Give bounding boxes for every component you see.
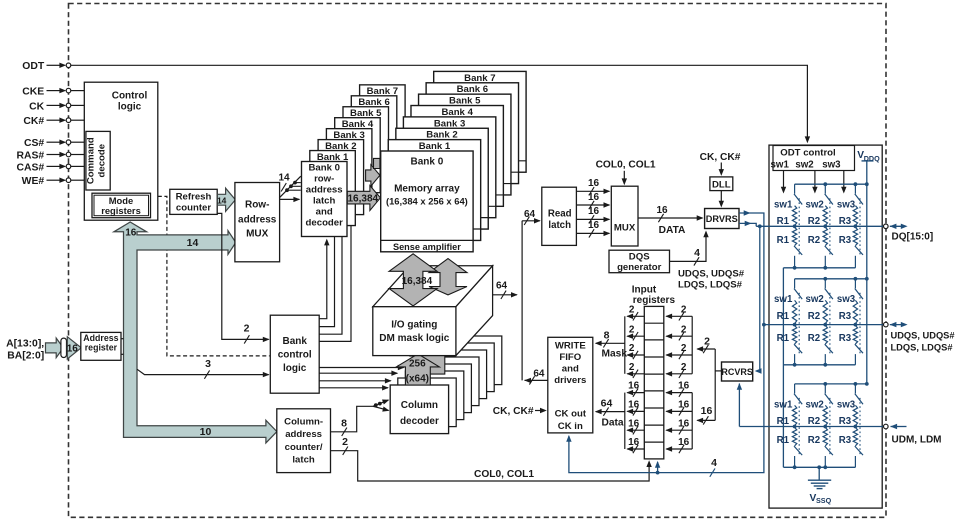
labels R1 R2 R3 upper DM [777,416,852,427]
svg-text:2: 2 [704,335,710,347]
label UDQS LDQS outputs [678,268,745,290]
wire CKE into control logic [71,90,85,92]
dashed gang link sw2 DQS [829,293,831,354]
svg-text:16: 16 [628,400,640,411]
svg-text:2: 2 [681,362,687,373]
dot branch 1 on DQS pad line [793,323,797,327]
svg-text:sw2: sw2 [805,294,823,305]
svg-text:64: 64 [533,369,545,380]
resistor R2 lower DM [823,428,827,446]
svg-text:Bank: Bank [282,336,307,347]
svg-text:16: 16 [588,178,600,189]
VDDQ bus [866,161,868,384]
svg-text:sw1: sw1 [774,399,793,410]
svg-text:64: 64 [601,398,613,410]
svg-text:counter/: counter/ [285,442,323,453]
svg-text:latch: latch [548,220,571,231]
svg-text:sw2: sw2 [805,200,823,211]
wire ODT control sw3 [843,171,845,191]
wire UDQS pad line [764,324,884,326]
svg-text:2: 2 [629,362,635,373]
svg-text:R3: R3 [839,235,852,246]
label COL0 COL1 into MUX [596,159,656,185]
ground bus [782,268,784,468]
svg-text:256: 256 [409,358,426,369]
box Bank 4 row-address latch [335,118,381,193]
wire bank control to bank0 latch [319,242,327,319]
labels R1 R2 R3 lower DQ [777,235,852,246]
svg-text:16: 16 [628,437,640,448]
dot branch 1 on DQ pad line [793,224,797,228]
svg-text:latch: latch [292,455,315,466]
svg-text:R1: R1 [777,333,790,344]
svg-text:counter: counter [176,202,211,213]
boundary collar for address bus [61,338,67,357]
resistor R2 upper DQS [823,300,827,323]
svg-text:DQS: DQS [629,252,650,263]
wire 2 register row 1 left [626,304,644,320]
resistor R3 lower DQS [853,326,857,344]
svg-text:and: and [562,363,579,374]
wire CK into control logic [71,104,85,106]
switch sw1 upper DQ [794,184,802,204]
box Address register [81,332,121,360]
box Bank control logic [270,315,319,393]
labels R1 R2 R3 upper DQS [777,311,852,322]
DQS ODT group bottom rail [783,364,855,366]
box RCVRS [721,362,753,381]
teal address bus with 16 up-arrow, 14 branch and 10 branch [114,222,277,443]
wire bank control to bank latches 3 [319,237,342,335]
dashed gang link sw2 DM [829,398,831,456]
resistor R3 lower DQ [853,227,857,245]
svg-text:sw1: sw1 [774,294,793,305]
box bank 7 column decoder sheet [443,336,501,385]
box Bank 0 row-address latch and decoder [302,162,348,237]
box I/O gating DM mask logic [373,266,493,356]
box Bank 7 memory array [434,71,526,172]
box bank 6 column decoder sheet [436,343,494,392]
svg-text:Bank 0: Bank 0 [308,163,339,174]
svg-text:14: 14 [278,172,290,183]
svg-text:CK, CK#: CK, CK# [493,406,534,417]
box Command decode [86,131,111,190]
dashed control line to refresh counter and bank control [158,196,270,356]
switch sw1 lower DM [794,446,802,467]
teal arrow 16 into address register [67,337,81,359]
wire 16 register row 7 right [665,418,692,434]
box Bank 6 memory array [426,83,518,184]
resistor R3 upper DQ [853,206,857,226]
svg-text:logic: logic [118,102,142,113]
label VSSQ [810,493,832,505]
svg-text:sw3: sw3 [837,200,856,211]
wire 16 register row 7 left [626,418,644,434]
wire 16 register row 5 left [626,381,644,397]
svg-text:16: 16 [67,344,79,355]
wire ODT to ODT control [71,65,808,139]
box Control logic U1 [84,82,158,220]
wire 8 column address to column decoder [331,399,390,436]
box WRITE FIFO and drivers [548,337,593,433]
switch sw2 upper DQS [825,279,833,299]
svg-text:logic: logic [283,363,307,374]
svg-text:CK in: CK in [558,421,583,432]
dot branch 3 on DM pad line [854,425,858,429]
gray arrow fragment bank2 row bus [366,165,380,186]
svg-text:8: 8 [604,329,610,341]
wire 16 register row 8 left [626,437,644,453]
svg-text:register: register [85,343,118,353]
box Bank 1 row-address latch [310,151,356,226]
svg-text:R1: R1 [777,311,790,322]
input pin CS# [24,138,71,149]
pad UDM LDM [884,424,942,446]
svg-text:and: and [316,207,333,218]
gray double arrow rear [429,259,467,295]
resistor R2 upper DQ [823,206,827,226]
input pin CKE [22,87,71,98]
switch sw3 upper DM [855,384,863,404]
svg-text:sw1: sw1 [774,200,793,211]
wire 16 read latch to mux 3 [576,206,610,223]
svg-text:2: 2 [342,436,348,448]
gray double arrow 16,384 sense amp to I/O gating [389,254,437,306]
left comb data collect [624,393,626,449]
svg-text:address: address [238,215,277,226]
svg-text:DATA: DATA [659,225,686,236]
svg-text:R3: R3 [839,435,852,446]
wire 8 Mask to write FIFO [595,329,628,359]
gray arrow 16,384 row bus to memory array [347,186,380,211]
switch sw3 upper DQ [855,184,863,204]
svg-text:WE#: WE# [22,176,45,187]
VDDQ power bar [862,160,874,162]
wire DQ tap to RCVRS [757,226,760,371]
switch sw2 lower DQS [825,344,833,365]
svg-text:DQ[15:0]: DQ[15:0] [892,232,934,243]
dot branch 1 on DM pad line [793,425,797,429]
switch sw3 lower DQS [855,344,863,365]
svg-text:16: 16 [678,400,690,411]
resistor R3 upper DM [853,405,857,425]
svg-text:DRVRS: DRVRS [706,214,738,224]
svg-text:MUX: MUX [246,229,269,240]
box bank 1 column decoder sheet [398,378,456,427]
svg-text:registers: registers [633,295,676,306]
switch sw1 lower DQ [794,246,802,268]
svg-text:16: 16 [588,206,600,217]
svg-text:UDQS, UDQS#: UDQS, UDQS# [678,268,745,279]
labels R1 R2 R3 upper DQ [777,216,852,227]
svg-text:R3: R3 [839,416,852,427]
wire 3 from address bus to bank control [137,369,269,374]
right comb strobe distribute [691,316,693,374]
svg-text:14: 14 [187,237,199,249]
svg-text:Command: Command [86,137,97,184]
svg-text:2: 2 [629,324,635,335]
svg-text:16,384: 16,384 [402,276,433,287]
svg-text:DM mask logic: DM mask logic [379,333,449,344]
wire DRVRS output to DQ line [739,223,756,226]
svg-text:Data: Data [602,417,624,428]
box Bank 7 row-address latch [360,85,406,160]
svg-text:R3: R3 [839,216,852,227]
svg-text:A[13:0],: A[13:0], [6,338,44,349]
wire strobe to input registers [657,462,659,472]
dashed gang link sw2 DQ [829,198,831,255]
svg-text:decode: decode [97,144,108,178]
box DRVRS [705,209,739,229]
svg-text:sw1: sw1 [771,160,790,171]
resistor R2 upper DM [823,405,827,425]
wire 2 register row 2 left [626,324,644,340]
input pin ODT [22,61,71,72]
svg-text:sw3: sw3 [837,399,856,410]
switch sw2 upper DQ [825,184,833,204]
wire bank control to column decoders 1 [319,367,403,369]
svg-text:RAS#: RAS# [16,150,44,161]
wire UDM pad line [739,426,884,428]
wire 2 register row 2 right [665,324,692,340]
DM ODT group top rail [795,383,867,385]
dashed gang link sw3 DQ [859,198,861,255]
svg-text:R1: R1 [777,235,790,246]
wire 2 register row 1 right [665,304,692,320]
svg-text:4: 4 [711,457,717,469]
gray arrow 256 (x64) column decoder to I/O gating [396,354,439,385]
input pin CK [29,101,71,112]
svg-text:3: 3 [205,358,211,370]
svg-text:(16,384 x 256 x 64): (16,384 x 256 x 64) [386,196,468,207]
box Row-address MUX [235,183,280,262]
box bank 4 column decoder sheet [421,357,479,406]
input pin A[13:0] BA[2:0] [6,338,44,361]
DQ ODT group top rail [795,183,867,185]
svg-text:drivers: drivers [554,375,586,386]
wire 16 register row 6 right [665,400,692,416]
resistor R1 upper DQS [792,300,796,323]
box Refresh counter [170,189,217,214]
box ODT control [771,146,855,171]
labels sw1 sw2 sw3 DQS [774,294,856,305]
dot branch 2 on DQ pad line [823,224,827,228]
svg-text:Refresh: Refresh [176,191,212,202]
wire 64 Data to write FIFO [595,398,625,429]
svg-text:Input: Input [632,284,657,295]
label CK CK# into DLL [700,152,741,176]
dashed gang link sw1 DQS [798,293,800,354]
svg-text:CK: CK [29,101,45,112]
svg-text:16: 16 [701,405,713,417]
svg-text:RCVRS: RCVRS [721,367,753,377]
svg-text:2: 2 [681,304,687,315]
left comb mask collect [624,316,626,374]
labels sw1 sw2 sw3 DM [774,399,856,410]
svg-text:row-: row- [314,174,334,185]
svg-text:16: 16 [125,227,137,238]
svg-text:14: 14 [217,195,227,205]
switch sw3 lower DM [855,446,863,467]
svg-text:address: address [306,185,343,196]
svg-text:R2: R2 [808,435,820,446]
wire refresh counter to bank control (2) [217,213,268,339]
svg-text:10: 10 [200,426,212,438]
labels R1 R2 R3 lower DQS [777,333,852,344]
labels sw1 sw2 sw3 DQ [774,200,856,211]
svg-text:LDQS, LDQS#: LDQS, LDQS# [891,342,954,352]
wire 16 register row 6 left [626,400,644,416]
resistor R3 lower DM [853,428,857,446]
svg-text:16: 16 [628,418,640,429]
svg-text:address: address [285,429,322,440]
svg-text:COL0, COL1: COL0, COL1 [596,159,656,170]
svg-text:CKE: CKE [22,87,44,98]
svg-text:R2: R2 [808,235,820,246]
resistor R1 lower DQ [792,227,796,245]
wire CK# into control logic [71,119,85,121]
svg-text:sw3: sw3 [837,294,856,305]
input pin CK# [23,116,70,127]
box Mode registers [92,193,151,218]
svg-text:UDM, LDM: UDM, LDM [892,434,942,445]
gray arrow fragment behind 256 [411,343,454,374]
svg-text:(x64): (x64) [406,373,429,384]
pad UDQS LDQS [884,322,956,353]
dot branch 3 on DQ pad line [854,224,858,228]
resistor R1 upper DM [792,405,796,425]
svg-text:2: 2 [629,304,635,315]
box Bank 2 memory array [396,128,488,229]
svg-text:R1: R1 [777,435,790,446]
resistor R2 lower DQS [823,326,827,344]
dot branch 2 on DM pad line [823,425,827,429]
svg-text:R1: R1 [777,216,790,227]
svg-text:64: 64 [524,209,536,220]
labels R1 R2 R3 lower DM [777,435,852,446]
input pin WE# [22,176,71,187]
wire DRVRS output DQS strobe net [569,213,764,473]
svg-text:Memory array: Memory array [394,184,460,195]
wire 2 register row 3 left [626,343,644,359]
svg-text:CK#: CK# [23,116,44,127]
wire 4 DQS generator to DRVRS [670,231,709,266]
box Column-address counter/latch [277,409,331,473]
wire ODT control sw1 [783,171,785,191]
svg-text:Row-: Row- [245,200,269,211]
wire 2 register row 3 right [665,343,692,359]
switch sw3 upper DQS [855,279,863,299]
wire 16 register row 5 right [665,381,692,397]
box DQS generator [609,250,670,273]
box DLL [710,177,733,191]
dashed gang link sw1 DQ [798,198,800,255]
svg-text:WRITE: WRITE [555,340,587,351]
box input registers column [644,306,664,459]
label CK CK# into write FIFO [493,406,547,417]
wire DQ pad line [756,225,884,227]
svg-text:Sense amplifier: Sense amplifier [393,242,461,252]
wire 2 column address COL0 COL1 line [331,436,652,481]
svg-text:UDQS, UDQS#: UDQS, UDQS# [891,330,956,340]
svg-text:R3: R3 [839,311,852,322]
resistor R1 lower DQS [792,326,796,344]
wire DLL to DRVRS [720,191,722,205]
switch sw3 lower DQ [855,246,863,268]
wire RCVRS to register combs [696,335,721,424]
svg-text:CAS#: CAS# [16,162,44,173]
wire 2 register row 4 right [665,362,692,378]
switch sw1 upper DM [794,384,802,404]
resistor R2 lower DQ [823,227,827,245]
input pin RAS# [16,150,70,161]
box MUX [611,186,638,246]
teal input arrow A/BA [46,338,64,358]
box Bank 4 memory array [411,106,503,207]
box ODT network enclosure [769,145,882,508]
wire 16 register row 8 right [665,437,692,453]
svg-text:16: 16 [678,418,690,429]
svg-text:generator: generator [617,262,662,273]
box Bank 3 row-address latch [326,129,372,204]
box Bank 3 memory array [403,117,495,218]
switch sw1 upper DQS [794,279,802,299]
input pin CAS# [16,162,70,173]
DM ODT group bottom rail [783,466,855,468]
svg-text:R2: R2 [808,416,820,427]
switch sw2 upper DM [825,384,833,404]
svg-text:R2: R2 [808,216,820,227]
wire bank control to column decoders 4 [319,387,388,389]
svg-text:BA[2:0]: BA[2:0] [7,350,44,361]
switch sw2 lower DQ [825,246,833,268]
box Bank 6 row-address latch [351,96,397,171]
bus width label 4 strobe [710,468,715,476]
box Read latch [542,187,577,245]
wire 2 register row 4 left [626,362,644,378]
svg-text:16: 16 [628,381,640,392]
svg-text:sw3: sw3 [822,160,841,171]
box bank 5 column decoder sheet [428,350,486,399]
svg-text:R2: R2 [808,333,820,344]
svg-text:CK, CK#: CK, CK# [700,152,741,163]
wire 16 read latch to mux 2 [576,192,610,209]
svg-text:I/O gating: I/O gating [391,320,437,331]
svg-text:64: 64 [496,280,508,291]
box bank 3 column decoder sheet [413,364,471,413]
wire 16 DATA mux to DRVRS [638,205,704,236]
svg-text:FIFO: FIFO [559,352,581,363]
box Bank 5 memory array [419,94,511,195]
svg-text:Mask: Mask [602,349,628,360]
svg-text:decoder: decoder [400,416,439,427]
wire 16 read latch to mux 4 [576,220,610,237]
svg-text:16: 16 [588,220,600,231]
svg-text:Column: Column [401,400,438,411]
DQS ODT group top rail [795,278,867,280]
wire row-address MUX to bank latches fan [278,172,300,202]
svg-text:COL0, COL1: COL0, COL1 [474,469,534,480]
svg-text:registers: registers [101,205,141,216]
wire bank control to bank latches 4 [319,226,351,341]
svg-text:LDQS, LDQS#: LDQS, LDQS# [678,280,743,291]
resistor R1 upper DQ [792,206,796,226]
resistor R3 upper DQS [853,300,857,323]
svg-text:control: control [278,350,312,361]
box Bank 5 row-address latch [343,107,389,182]
svg-text:Bank 0: Bank 0 [411,157,444,168]
svg-text:Control: Control [112,91,148,102]
